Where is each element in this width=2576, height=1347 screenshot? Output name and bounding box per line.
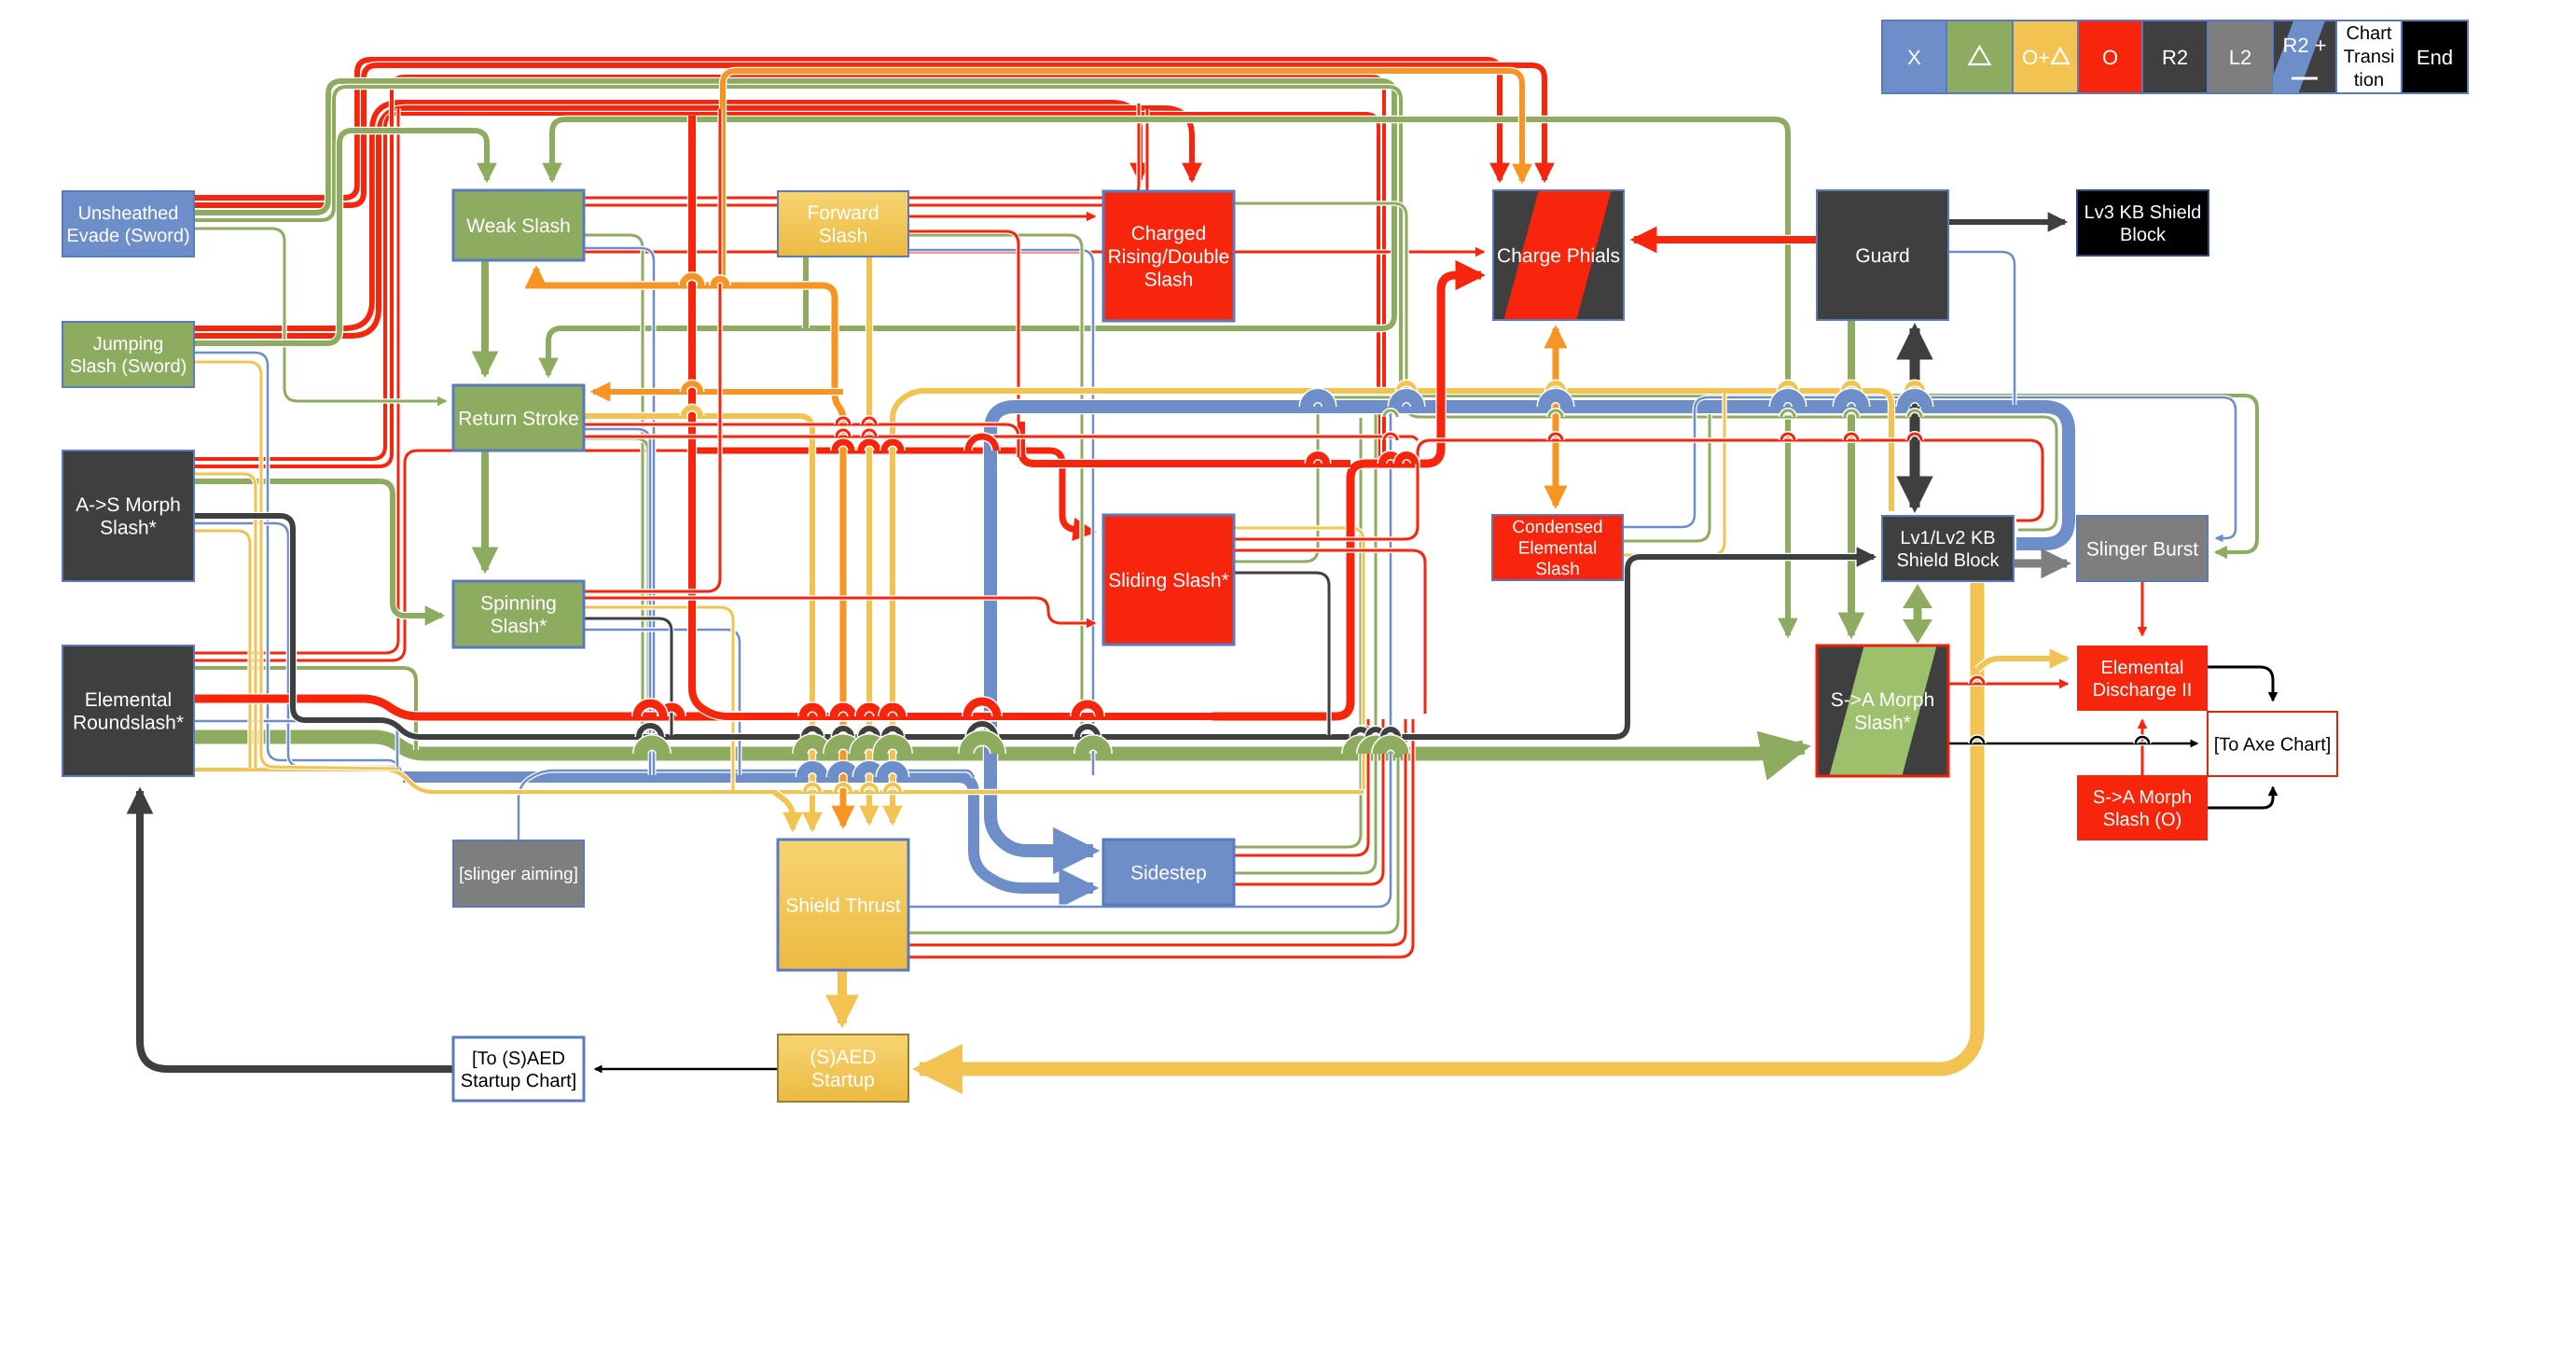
svg-text:Jumping: Jumping: [93, 334, 164, 354]
wire blue A-S Morph join: [194, 523, 399, 767]
wire hop: [857, 742, 881, 754]
wire hop: [662, 707, 681, 716]
box Unsheathed Evade (Sword): [62, 191, 194, 257]
wire hop: [1971, 677, 1984, 684]
svg-text:Spinning: Spinning: [480, 593, 557, 615]
wire hop: [2136, 801, 2149, 808]
wire hop: [836, 785, 851, 792]
svg-text:Guard: Guard: [1855, 245, 1909, 267]
svg-text:Startup Chart]: Startup Chart]: [461, 1071, 577, 1091]
wire hop: [1781, 434, 1794, 440]
wire red Jumping to Charged Rising top L: [194, 103, 1140, 328]
box S-A Morph Slash O: [2077, 775, 2208, 840]
svg-text:Unsheathed: Unsheathed: [78, 203, 179, 224]
wire red Shield Thrust join 1: [908, 719, 1406, 945]
legend R2+hold: [2260, 6, 2336, 112]
wire hop: [1368, 729, 1383, 737]
wire orange top feeder to Charge Phials: [723, 71, 1522, 285]
wire hop: [1780, 383, 1795, 391]
box Slinger Burst: [2077, 516, 2208, 581]
wire hop: [1781, 389, 1794, 396]
svg-text:Return Stroke: Return Stroke: [458, 408, 579, 429]
wire hop: [968, 437, 996, 451]
wire hop: [1549, 434, 1562, 440]
wire hop: [1845, 434, 1858, 440]
wire yellow band to Lv1Lv2 top: [893, 391, 1891, 823]
box Sidestep: [1103, 840, 1234, 905]
wire blue main loop Lv1Lv2 to Sidestep: [990, 407, 2069, 851]
wire hop: [641, 743, 663, 754]
svg-text:tion: tion: [2354, 70, 2384, 90]
wire red Shield Thrust join 2: [908, 719, 1413, 957]
wire red Guard to Charge Phials: [1634, 235, 1817, 244]
wire blue Weak Slash down: [584, 248, 654, 775]
svg-text:Elemental: Elemental: [85, 689, 172, 711]
svg-text:Discharge II: Discharge II: [2093, 680, 2193, 701]
wire hop: [1548, 383, 1563, 391]
wire dark long band to Lv1Lv2 left: [194, 516, 1874, 737]
wire red Weak Slash loop to top band 2: [584, 109, 1147, 205]
wire hop: [803, 707, 822, 716]
box A-S Morph Slash: [62, 451, 194, 581]
wire green Unsheathed to Return Stroke arrow: [194, 81, 1394, 375]
wire hop: [1904, 396, 1926, 407]
wire green Condensed Elemental loop up: [1623, 396, 1710, 541]
wire black S-A Morph O to To Axe Chart: [2208, 787, 2273, 808]
wire yellow Spinning join: [584, 607, 733, 790]
wire yellow branch to Shield Thrust left: [774, 792, 793, 829]
svg-text:Condensed: Condensed: [1512, 518, 1602, 537]
wire hop: [1549, 389, 1562, 396]
wire yellow branch to Elemental Discharge II: [1977, 659, 2067, 670]
wire yellow Forward Slash to Shield Thrust: [866, 257, 873, 823]
wire hop: [861, 442, 878, 451]
wire hop: [884, 729, 901, 737]
wire yellow Condensed join up: [1623, 393, 1724, 555]
wire hop: [833, 767, 853, 777]
legend X: [1882, 21, 1946, 93]
wire yellow big loop to SAED Startup: [920, 583, 1977, 1069]
wire green Elemental Roundslash join band: [194, 668, 416, 750]
wire red Sidestep join 2: [1234, 719, 1383, 884]
wire red Return Stroke right 1: [584, 424, 1018, 457]
box SAED Startup: [778, 1035, 908, 1102]
svg-text:R2: R2: [2162, 46, 2188, 69]
legend O+triangle: [2013, 21, 2078, 93]
wire green Weak Slash down join band: [584, 235, 643, 749]
wire red Elemental Roundslash to top band: [194, 108, 398, 653]
svg-text:Elemental: Elemental: [2101, 658, 2184, 678]
wire green Shield Thrust up join band: [908, 757, 1398, 933]
svg-text:End: End: [2417, 46, 2453, 69]
wire dark Guard to Lv3 KB: [1948, 218, 2065, 226]
wire green Charged Rising to Lv1Lv2 right loop: [1234, 203, 2057, 530]
wire hop: [1350, 743, 1372, 754]
wire hop: [1399, 383, 1414, 391]
wire blue Guard right join band: [1948, 252, 2015, 405]
wire blue Return Stroke down: [584, 429, 650, 775]
svg-text:(S)AED: (S)AED: [810, 1047, 876, 1068]
wire hop: [1307, 396, 1329, 407]
wire red Unsheathed to Charge Phials top 2: [194, 65, 1544, 205]
box Guard: [1817, 190, 1948, 320]
box slinger aiming: [453, 840, 584, 907]
wire hop: [1077, 727, 1098, 737]
box Shield Thrust: [778, 840, 908, 970]
box Weak Slash: [453, 190, 584, 260]
wire hop: [1845, 389, 1858, 396]
wire red Forward Slash right down: [908, 231, 1018, 422]
wire green Return Stroke to Spinning Slash: [480, 451, 490, 570]
wire hop: [1840, 396, 1863, 407]
wire hop: [1549, 410, 1562, 417]
box Condensed Elemental Slash: [1492, 515, 1623, 580]
wire green Sliding Slash join 424: [1234, 397, 1399, 562]
wire hop: [639, 726, 661, 737]
box Jumping Slash (Sword): [62, 322, 194, 387]
box Charge Phials: [1493, 186, 1624, 325]
wire hop: [1353, 729, 1368, 737]
wire hop: [684, 408, 700, 416]
svg-text:Slash*: Slash*: [100, 518, 157, 539]
svg-text:R2 +: R2 +: [2282, 34, 2326, 57]
box Sliding Slash: [1103, 515, 1234, 645]
svg-text:Charge Phials: Charge Phials: [1497, 245, 1620, 267]
wire orange arrow into Return Stroke: [593, 388, 843, 396]
wire green Sidestep up join 424: [1234, 396, 1376, 873]
wire hop: [835, 729, 852, 737]
wire hop: [882, 767, 903, 777]
box Charged Rising Double Slash: [1103, 191, 1234, 321]
wire hop: [837, 430, 850, 437]
wire hop: [802, 767, 823, 777]
wire hop: [804, 729, 821, 737]
legend End: [2402, 21, 2468, 93]
wire red Jumping to Charged Rising top R: [194, 108, 1192, 336]
box Lv1 Lv2 KB Shield Block: [1882, 516, 2014, 581]
wire green line to Weak Slash top right: [552, 119, 1170, 180]
wire hop: [880, 742, 905, 754]
wire hop: [859, 767, 879, 777]
wire red Slinger Burst to Elemental Discharge II: [2140, 581, 2144, 635]
wire gray Lv1Lv2 to Slinger Burst: [2014, 558, 2067, 568]
wire red Return Stroke right 2: [584, 437, 1418, 440]
legend R2: [2142, 21, 2208, 93]
svg-text:Slinger Burst: Slinger Burst: [2086, 538, 2198, 560]
wire hop: [1384, 410, 1397, 417]
wire hop: [966, 738, 998, 754]
wire green Return Stroke down join band: [584, 438, 648, 749]
legend L2: [2208, 21, 2273, 93]
wire hop: [1845, 410, 1858, 417]
svg-text:Forward: Forward: [807, 202, 879, 224]
wire red Spinning to top band: [584, 109, 720, 591]
svg-text:A->S Morph: A->S Morph: [76, 494, 181, 516]
wire hop: [1908, 434, 1921, 440]
wire hop: [1309, 455, 1326, 464]
wire hop: [863, 418, 876, 424]
wire red A-S Morph via top band to mid: [194, 114, 1378, 464]
wire green Unsheathed to Return Stroke left: [194, 229, 446, 401]
wire green Guard down to S-A Morph: [1847, 320, 1856, 635]
wire red thick main band: [194, 275, 1481, 716]
wire hop: [837, 418, 850, 424]
wire red thick vertical feeder: [692, 116, 1212, 716]
legend O: [2078, 21, 2142, 93]
wire yellow A-S Morph join 2: [194, 531, 250, 769]
box Forward Slash: [778, 191, 908, 257]
wire hop: [884, 442, 901, 451]
wire red Elemental Roundslash west thin: [194, 451, 692, 660]
legend Chart Transition: [2336, 21, 2402, 93]
wire green Sidestep up join 447: [1234, 418, 1361, 847]
wire blue Jumping Slash join: [194, 353, 403, 777]
svg-text:[To (S)AED: [To (S)AED: [472, 1048, 565, 1069]
box Spinning Slash: [453, 581, 584, 647]
svg-text:Shield Block: Shield Block: [1896, 550, 2000, 571]
svg-text:O+: O+: [2022, 46, 2050, 69]
wire hop: [1379, 743, 1402, 754]
wire hop: [861, 729, 878, 737]
svg-text:Lv1/Lv2 KB: Lv1/Lv2 KB: [1900, 528, 1995, 549]
svg-text:S->A Morph: S->A Morph: [1831, 689, 1934, 711]
svg-text:Slash (Sword): Slash (Sword): [70, 356, 187, 377]
svg-text:Charged: Charged: [1131, 223, 1207, 244]
wire hop: [860, 707, 879, 716]
wire yellow Return Stroke to Shield Thrust: [584, 416, 812, 829]
box Lv3 KB Shield Block: [2077, 190, 2209, 256]
wire hop: [637, 703, 663, 716]
wire red Spinning to Sliding Slash left 2: [584, 598, 1095, 623]
wire hop: [831, 742, 855, 754]
svg-text:L2: L2: [2229, 46, 2251, 69]
wire blue slinger aiming link: [519, 771, 974, 840]
wire green line to S-A Morph node: [1170, 119, 1788, 635]
wire green Unsheathed to Slinger Burst loop: [194, 87, 2257, 552]
wire blue Shield Thrust right up: [908, 408, 1391, 907]
svg-text:Shield Thrust: Shield Thrust: [785, 895, 901, 916]
wire hop: [835, 442, 852, 451]
svg-text:Slash: Slash: [1144, 270, 1194, 291]
svg-text:Weak Slash: Weak Slash: [466, 215, 571, 237]
wire yellow A-S Morph join 1: [194, 474, 256, 769]
wire orange double arrow Charge Phials Condensed: [1551, 328, 1559, 506]
wire green Forward Slash down join: [802, 257, 810, 328]
svg-text:X: X: [1907, 46, 1921, 69]
wire orange Weak Slash to Shield Thrust: [536, 269, 843, 826]
wire red Weak Slash loop to top band 1: [584, 104, 1139, 198]
svg-text:Lv3 KB Shield: Lv3 KB Shield: [2084, 202, 2202, 223]
wire yellow Shield Thrust to SAED: [837, 970, 848, 1023]
wire blue lower band to Sidestep: [403, 777, 1093, 888]
wire dark SAED loop to Elemental Roundslash: [140, 791, 453, 1069]
wire yellow low band: [194, 770, 1364, 792]
legend triangle: [1946, 21, 2013, 93]
wire hop: [683, 276, 701, 285]
wire green Weak Slash to Return Stroke: [480, 260, 490, 374]
wire red Sidestep join 1: [1234, 719, 1368, 855]
wire yellow Jumping join: [194, 362, 397, 769]
wire hop: [1383, 729, 1398, 737]
wire hop: [800, 742, 824, 754]
wire hop: [969, 724, 995, 737]
wire hop: [1544, 396, 1567, 407]
box To SAED Startup Chart: [453, 1037, 584, 1101]
box Elemental Roundslash: [62, 646, 194, 776]
wire hop: [834, 707, 852, 716]
wire red thick band west: [1021, 422, 1350, 464]
wire green Forward Slash right: [908, 235, 1082, 752]
wire hop: [862, 785, 877, 792]
wire hop: [883, 707, 902, 716]
wire black Sliding Slash join: [1234, 573, 1329, 735]
svg-text:Evade (Sword): Evade (Sword): [66, 226, 189, 246]
wire hop: [1364, 743, 1387, 754]
wire hop: [967, 701, 997, 716]
wire hop: [1777, 396, 1799, 407]
svg-text:O: O: [2102, 46, 2118, 69]
wire green Jumping to Weak Slash top left: [194, 131, 487, 343]
wire black SAED to To SAED chart: [595, 1067, 778, 1072]
wire hop: [885, 785, 900, 792]
wire red S-A Morph O to Elemental Discharge II: [2140, 720, 2144, 775]
svg-text:Roundslash*: Roundslash*: [73, 713, 184, 734]
wire red Unsheathed to Charge Phials top 1: [194, 60, 1500, 198]
svg-text:Rising/Double: Rising/Double: [1108, 246, 1230, 268]
wire hop: [1400, 389, 1413, 396]
wire red A-S Morph via top band 2: [194, 76, 1384, 466]
svg-text:Slash*: Slash*: [1854, 713, 1911, 734]
wire hop: [1908, 410, 1921, 417]
wire red thick to Sliding Slash left: [692, 451, 1093, 532]
box Elemental Discharge II: [2077, 646, 2208, 711]
wire red thin band to Lv1Lv2 right: [1234, 440, 2043, 539]
wire blue Spinning Slash down: [584, 630, 740, 775]
svg-text:Chart: Chart: [2347, 23, 2392, 44]
wire hop: [1907, 383, 1922, 391]
legend bar: [1882, 6, 2468, 112]
wire red S-A Morph to Elemental Discharge II: [1948, 681, 2068, 686]
svg-text:[slinger aiming]: [slinger aiming]: [459, 865, 578, 884]
svg-text:Slash: Slash: [1535, 560, 1580, 579]
box S-A Morph Slash star: [1817, 641, 1948, 781]
wire blue Elemental Roundslash join: [194, 721, 397, 775]
svg-text:Elemental: Elemental: [1518, 539, 1598, 559]
wire red Sliding join down 2: [1234, 550, 1425, 714]
wire green double arrow Lv1Lv2 to S-A Morph: [1903, 584, 1932, 644]
wire hop: [863, 430, 876, 437]
svg-text:Sidestep: Sidestep: [1130, 862, 1207, 883]
svg-text:[To Axe Chart]: [To Axe Chart]: [2214, 735, 2332, 756]
wire black Elemental Discharge II to To Axe Chart: [2208, 667, 2273, 701]
wire dark double arrow Guard Lv1Lv2: [1908, 328, 1920, 507]
wire hop: [2136, 737, 2149, 743]
wire green A-S Morph to Spinning Slash left: [194, 481, 442, 616]
svg-text:Slash (O): Slash (O): [2103, 810, 2181, 830]
wire black S-A Morph to To Axe Chart: [1948, 742, 2197, 746]
wire blue Forward Slash right: [908, 250, 1093, 775]
box To Axe Chart: [2208, 712, 2337, 776]
wire hop: [1384, 434, 1397, 440]
svg-text:Slash: Slash: [819, 226, 868, 247]
box Return Stroke: [453, 385, 584, 451]
wire hop: [1351, 742, 1376, 754]
wire hop: [1075, 704, 1100, 716]
svg-text:Block: Block: [2120, 225, 2167, 245]
svg-text:Sliding Slash*: Sliding Slash*: [1108, 570, 1229, 591]
svg-text:Startup: Startup: [811, 1070, 875, 1091]
svg-text:Transi: Transi: [2344, 47, 2395, 67]
wire yellow Sliding Slash join: [1234, 528, 1364, 789]
wire red Forward Slash to Charged Rising: [908, 214, 1095, 218]
wire black Spinning Slash join: [584, 618, 672, 735]
wire hop: [1844, 383, 1859, 391]
wire hop: [1398, 455, 1415, 464]
wire hop: [1355, 729, 1372, 737]
svg-text:Slash*: Slash*: [491, 616, 547, 637]
wire red Weak Slash to Charge Phials left: [584, 249, 1484, 254]
wire hop: [1781, 410, 1794, 417]
wire blue Condensed loop to Slinger Burst: [1623, 397, 2236, 538]
wire hop: [684, 383, 700, 392]
wire green mega band to S-A Morph Slash: [194, 737, 1804, 754]
wire hop: [805, 785, 820, 792]
wire hop: [1382, 455, 1399, 464]
wire hop: [713, 279, 727, 285]
wire hop: [1971, 737, 1984, 743]
wire hop: [1395, 396, 1418, 407]
wire hop: [1082, 743, 1104, 754]
wire hop: [1908, 389, 1921, 396]
svg-text:S->A Morph: S->A Morph: [2093, 787, 2192, 808]
